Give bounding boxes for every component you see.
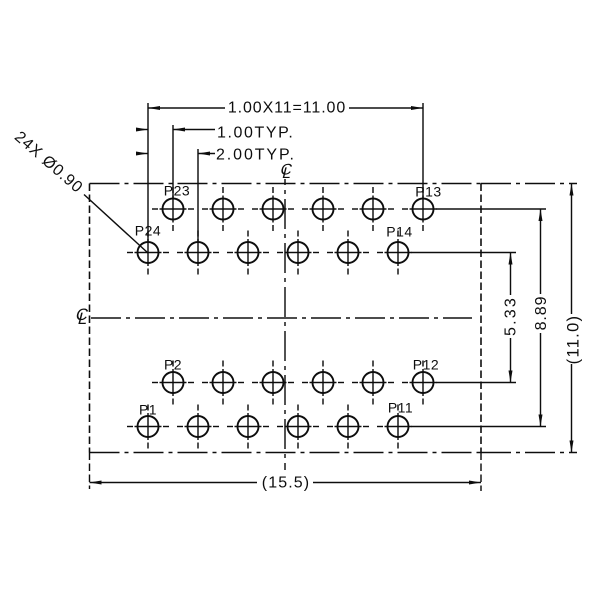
- svg-text:5.33: 5.33: [503, 296, 520, 336]
- svg-text:P1: P1: [139, 402, 157, 418]
- svg-text:P24: P24: [135, 223, 161, 239]
- svg-text:P13: P13: [415, 184, 441, 200]
- svg-text:P23: P23: [164, 182, 190, 198]
- svg-text:1.00TYP.: 1.00TYP.: [217, 125, 294, 142]
- svg-text:(15.5): (15.5): [262, 475, 310, 492]
- svg-text:(11.0): (11.0): [565, 315, 583, 365]
- svg-text:P11: P11: [388, 400, 413, 416]
- svg-text:1.00X11=11.00: 1.00X11=11.00: [228, 100, 346, 117]
- svg-text:P12: P12: [413, 357, 439, 373]
- svg-text:8.89: 8.89: [533, 296, 550, 331]
- svg-text:P2: P2: [164, 357, 182, 373]
- svg-text:P14: P14: [386, 224, 412, 240]
